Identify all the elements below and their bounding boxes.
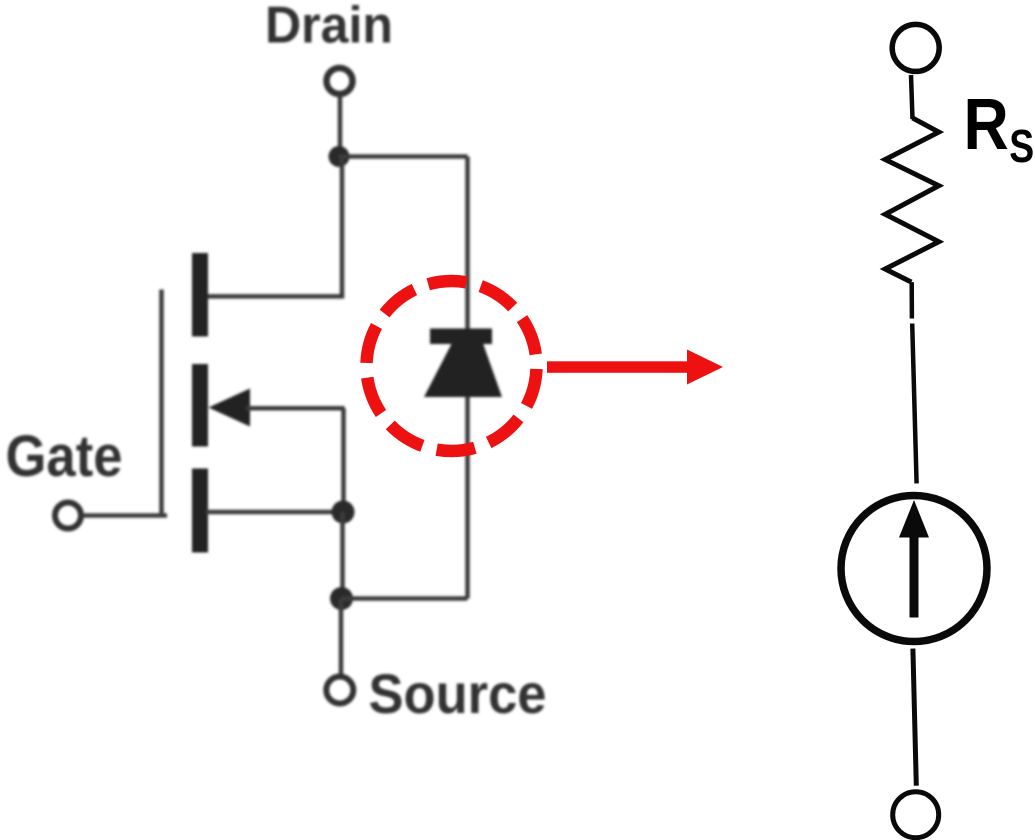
callout arrow (red) to equivalent circuit <box>547 350 723 385</box>
wire diode branch vertical <box>465 157 470 599</box>
wire node C to diode branch bottom <box>342 596 468 601</box>
junction node A (drain) <box>329 146 350 167</box>
svg-text:Gate: Gate <box>6 424 123 489</box>
terminal Drain <box>327 68 353 94</box>
wire node A down to drain corner <box>340 157 345 297</box>
MOSFET Q1 body channel bar <box>192 364 208 447</box>
wire resistor to current source (upper) <box>909 282 914 318</box>
resistor RS zigzag <box>885 118 939 282</box>
MOSFET Q1 source channel bar <box>192 469 208 553</box>
body diode D1 cathode bar <box>430 329 492 345</box>
wire resistor to current source (lower) <box>912 324 916 484</box>
MOSFET Q1 body arrow <box>209 389 251 427</box>
MOSFET Q1 gate plate <box>159 290 164 517</box>
MOSFET Q1 drain channel bar <box>192 253 208 337</box>
current source I1 circle <box>841 496 987 642</box>
terminal top (equivalent circuit) <box>892 24 939 71</box>
wire top terminal to resistor <box>911 75 913 119</box>
wire body corner down to junction node B <box>341 408 346 512</box>
junction node B (source of MOSFET) <box>332 501 355 524</box>
terminal bottom (equivalent circuit) <box>893 792 939 838</box>
wire node C down to source terminal <box>339 599 344 677</box>
current source I1 arrow <box>899 500 929 618</box>
junction node C <box>330 587 353 610</box>
value label RS <box>964 85 1035 172</box>
wire node B to node C <box>340 512 345 599</box>
wire node A to diode branch (horizontal) <box>339 154 468 159</box>
svg-text:S: S <box>1009 120 1034 172</box>
body diode D1 anode triangle <box>424 342 502 397</box>
wire current source to bottom terminal <box>913 649 916 786</box>
wire gate terminal to gate plate <box>82 513 168 518</box>
highlight circle (red dashed) around body diode <box>367 281 537 451</box>
svg-text:Source: Source <box>369 662 547 725</box>
terminal Source <box>326 677 353 704</box>
wire drain corner to MOSFET drain bar <box>206 294 344 299</box>
wire body arrow to body corner <box>246 406 345 411</box>
svg-text:Drain: Drain <box>265 0 393 55</box>
terminal Gate <box>55 503 81 529</box>
wire MOSFET source bar to junction node B <box>206 510 343 515</box>
svg-text:R: R <box>964 85 1009 165</box>
wire drain-terminal to node A <box>338 96 343 157</box>
